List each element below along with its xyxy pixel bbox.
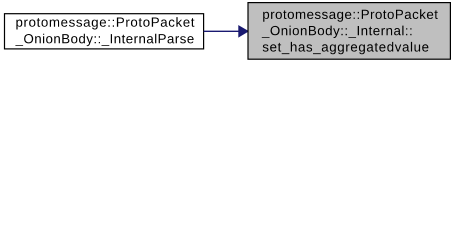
edge wire: caller to current function (204, 30, 239, 32)
label line 1: protomessage::ProtoPacket (16, 17, 194, 29)
node box: caller protomessage::ProtoPacket_OnionBody::_InternalParse (5, 14, 204, 49)
edge arrowhead (239, 26, 248, 37)
label line 2: _OnionBody::_Internal:: (262, 26, 412, 38)
label line 1: protomessage::ProtoPacket (263, 9, 438, 21)
label line 3: set_has_aggregatedvalue (263, 42, 429, 54)
label line 2: _OnionBody::_InternalParse (15, 34, 193, 46)
node box: current function protomessage::ProtoPacket_OnionBody::_Internal::set_has_aggregatedvalue (gray) (248, 3, 450, 60)
